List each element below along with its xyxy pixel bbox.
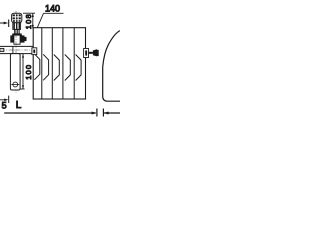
svg-text:L: L [16,100,22,111]
valve neck (threaded) [13,23,21,30]
radiator block outline [33,28,85,99]
block inner verticals [41,28,43,99]
tick at arrow [8,20,10,28]
svg-text:5: 5 [2,100,7,110]
supply pipe [0,45,33,47]
chevron plate 3 [54,55,60,81]
svg-text:140: 140 [45,4,60,14]
svg-text:108: 108 [24,13,33,29]
dim 5 line [0,99,6,101]
dim 108 line [32,13,34,28]
dim 140 leader [44,12,64,14]
left column (riser) [10,54,20,90]
valve stem [14,29,19,34]
valve body with side wings [14,34,20,44]
svg-text:100: 100 [24,64,33,80]
right port fitting [84,49,89,58]
chevron plate 2 [43,54,48,80]
centerline vertical [15,11,17,93]
dim 100 line [22,54,24,89]
side profile outline [103,31,120,102]
bottom dim line right [104,112,120,114]
left port fitting [32,48,37,55]
chevron plate 4 [65,55,71,81]
bottom dim line long [4,112,96,114]
bolt / nipple [89,52,93,54]
chevron plate 5 [76,55,82,81]
chevron plate 1 [34,54,39,80]
section arrow top-left [0,22,6,24]
drain circle [13,82,18,87]
pipe centerline [1,49,36,51]
valve cap [12,13,22,22]
